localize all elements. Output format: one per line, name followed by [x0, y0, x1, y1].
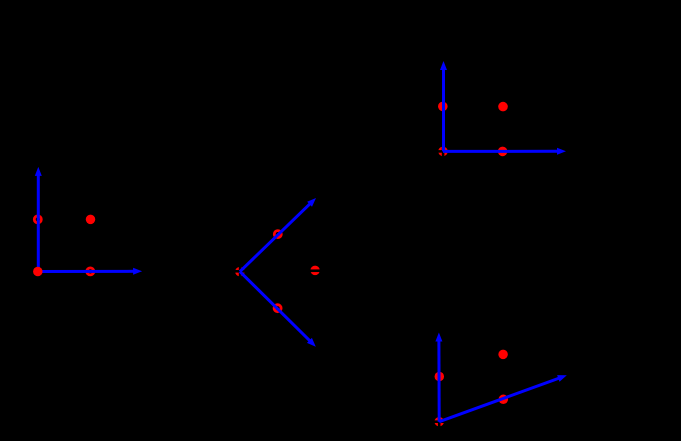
lattice point D(1,0) filled	[499, 395, 509, 405]
black y-axis stub (dark bottom arm at origin)	[438, 414, 441, 429]
origin dot A(0,0) filled, drawn on top	[33, 267, 43, 277]
lattice point C(1,1) filled	[498, 102, 508, 112]
lattice point C(0,1) filled	[438, 102, 448, 112]
lattice point C(1,0) filled	[498, 147, 508, 157]
vector D b2 (vertical arrow)	[437, 340, 440, 422]
vector C b2 (vertical arrow)	[442, 69, 445, 152]
origin dot B(0,0) filled	[235, 267, 245, 277]
vector C b1 (horizontal arrow)	[443, 150, 559, 153]
black x-axis stub (dark left arm at origin)	[436, 150, 449, 153]
origin dot C(0,0) filled	[438, 147, 448, 157]
black y-axis stub (dark bottom arm at origin)	[442, 145, 445, 158]
lattice point D(1,1) filled	[498, 350, 508, 360]
lattice point A(0,1) open ring	[34, 216, 41, 223]
lattice point A(1,0) open ring	[87, 268, 94, 275]
lattice point B(1,1) open ring	[274, 231, 281, 238]
vector D b1 (shallow diagonal arrow)	[439, 378, 560, 422]
vector A b1 (horizontal arrow)	[38, 270, 135, 273]
lattice point D(0,1) filled	[435, 372, 445, 382]
vector A b2 (vertical arrow)	[37, 174, 40, 271]
vector B b2 (down-right arrow)	[240, 272, 311, 342]
lattice point B(2,0) filled	[310, 266, 320, 276]
black y-axis line (occludes origin dot)	[239, 262, 242, 282]
origin dot D(0,0) filled	[434, 417, 444, 427]
black x-axis line (occludes red dots)	[232, 269, 322, 272]
lattice point B(1,-1) open ring	[274, 305, 281, 312]
lattice point A(1,1) filled	[86, 215, 96, 225]
black x-axis line (occludes origin dot)	[430, 420, 567, 423]
vector B b1 (up-right arrow)	[240, 203, 311, 271]
